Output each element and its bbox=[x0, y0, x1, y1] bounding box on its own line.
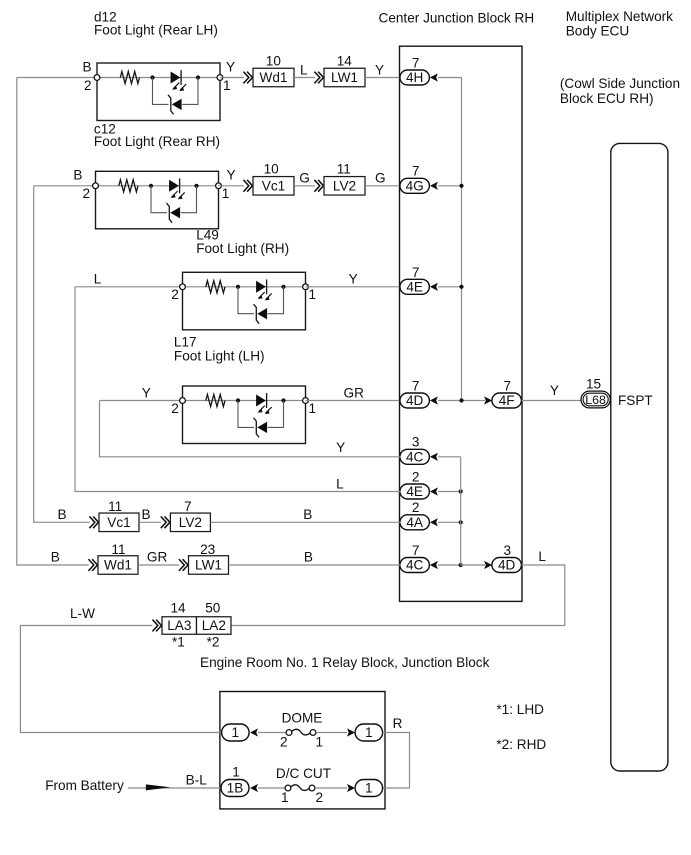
svg-text:Engine Room No. 1 Relay Block,: Engine Room No. 1 Relay Block, Junction … bbox=[200, 655, 490, 670]
wire D/C CUT fuse to right connector bbox=[315, 787, 347, 789]
svg-text:1: 1 bbox=[232, 764, 240, 779]
svg-text:LV2: LV2 bbox=[333, 178, 356, 193]
arrow into 4A bbox=[430, 518, 438, 526]
connector Wd1 row8 bbox=[98, 556, 138, 575]
fuse DOME bbox=[286, 729, 316, 735]
svg-text:B: B bbox=[303, 507, 312, 522]
svg-text:1: 1 bbox=[309, 401, 317, 416]
svg-text:B: B bbox=[83, 59, 92, 74]
Center Junction Block RH outline bbox=[400, 46, 523, 601]
wire DOME fuse to right connector bbox=[316, 732, 347, 734]
svg-text:R: R bbox=[393, 716, 403, 731]
svg-text:Y: Y bbox=[550, 383, 559, 398]
wire L-W down to DOME connector bbox=[20, 626, 221, 733]
svg-text:4F: 4F bbox=[499, 393, 515, 408]
connector 4E row3 bbox=[400, 279, 430, 294]
svg-text:1: 1 bbox=[365, 781, 373, 796]
junction block internal bus upper bbox=[461, 78, 463, 401]
chevron into LV2 bbox=[314, 180, 323, 192]
lower bus dot 4C bbox=[459, 563, 463, 567]
L49 internal wire bbox=[183, 286, 306, 288]
wire B LW1 to 4C bbox=[229, 564, 401, 566]
svg-text:Y: Y bbox=[226, 59, 235, 74]
arrow into 4D bbox=[430, 396, 438, 404]
svg-text:15: 15 bbox=[586, 377, 601, 392]
arrow into 4C bbox=[430, 453, 438, 461]
svg-text:GR: GR bbox=[147, 550, 168, 565]
wire L from L49 loop to 4E bbox=[75, 287, 401, 492]
connector 4D row8 right bbox=[492, 558, 522, 573]
svg-text:7: 7 bbox=[184, 499, 192, 514]
arrow into 4F bbox=[484, 396, 492, 404]
wire 4A to lower bus bbox=[438, 521, 461, 523]
arrow into 4H bbox=[430, 73, 438, 81]
chevron into Vc1 lower bbox=[89, 516, 98, 528]
d12 LED bbox=[171, 70, 187, 91]
connector LW1 row8 bbox=[189, 556, 229, 575]
svg-text:Foot Light (LH): Foot Light (LH) bbox=[174, 348, 265, 363]
c12 pin 2 terminal bbox=[93, 183, 99, 189]
d12 body bbox=[97, 63, 220, 121]
chevron into LW1 bbox=[314, 72, 323, 84]
svg-text:7: 7 bbox=[412, 379, 420, 394]
Engine Room No. 1 Relay Block outline bbox=[220, 692, 385, 809]
svg-text:GR: GR bbox=[344, 385, 365, 400]
Multiplex Network Body ECU outline bbox=[611, 143, 668, 771]
wire 4C to lower bus bbox=[438, 456, 461, 458]
wire to D/C CUT fuse bbox=[258, 787, 285, 789]
L49 pin 1 terminal bbox=[303, 284, 309, 290]
L49 resistor bbox=[206, 281, 225, 293]
wire Y c12 to Vc1 bbox=[219, 185, 245, 187]
svg-text:1: 1 bbox=[365, 725, 373, 740]
svg-text:1: 1 bbox=[232, 725, 240, 740]
svg-text:G: G bbox=[375, 171, 386, 186]
connector 4E row6 bbox=[400, 484, 430, 499]
svg-text:2: 2 bbox=[171, 401, 179, 416]
svg-text:7: 7 bbox=[412, 543, 420, 558]
d12 pin 1 terminal bbox=[217, 75, 223, 81]
svg-text:4E: 4E bbox=[406, 484, 423, 499]
svg-text:*1: LHD: *1: LHD bbox=[496, 702, 544, 717]
connector 4H bbox=[400, 70, 430, 85]
svg-text:4H: 4H bbox=[406, 70, 423, 85]
L49 body bbox=[183, 272, 306, 330]
DOME connector left bbox=[222, 724, 250, 741]
svg-text:4D: 4D bbox=[406, 393, 424, 408]
svg-text:Y: Y bbox=[227, 168, 236, 183]
svg-text:4C: 4C bbox=[406, 558, 424, 573]
svg-text:*2: RHD: *2: RHD bbox=[496, 737, 546, 752]
connector 4A bbox=[400, 515, 430, 530]
left bus wire B row c12 to Vc1 bbox=[34, 186, 90, 523]
svg-text:LW1: LW1 bbox=[331, 70, 358, 85]
wire 4G to internal bus bbox=[438, 185, 462, 187]
wire Y LW1 to 4H bbox=[365, 77, 401, 79]
svg-text:Block ECU RH): Block ECU RH) bbox=[560, 91, 654, 106]
svg-text:Vc1: Vc1 bbox=[262, 178, 285, 193]
bus junction dot 4E bbox=[459, 285, 463, 289]
c12 pin 1 terminal bbox=[216, 183, 222, 189]
wire 4C to lower bus bbox=[438, 564, 461, 566]
wire 4D to internal bus bbox=[438, 400, 462, 402]
svg-text:L68: L68 bbox=[585, 393, 606, 407]
svg-text:1: 1 bbox=[223, 78, 231, 93]
svg-text:*2: *2 bbox=[207, 635, 220, 650]
svg-text:LV2: LV2 bbox=[179, 515, 202, 530]
svg-text:4A: 4A bbox=[406, 515, 424, 530]
d12 junction dot right bbox=[196, 75, 200, 79]
svg-text:3: 3 bbox=[412, 434, 420, 449]
svg-text:L: L bbox=[538, 549, 546, 564]
svg-text:7: 7 bbox=[504, 379, 512, 394]
svg-text:Center Junction Block RH: Center Junction Block RH bbox=[379, 10, 535, 25]
svg-text:11: 11 bbox=[337, 162, 351, 177]
connector Wd1 row1 bbox=[253, 68, 294, 87]
bus junction dot 4D bbox=[459, 398, 463, 402]
connector 1B bbox=[221, 780, 249, 797]
svg-text:LA3: LA3 bbox=[167, 618, 191, 633]
svg-text:Wd1: Wd1 bbox=[104, 558, 132, 573]
L49 lower branch wire bbox=[238, 287, 284, 314]
connector 4C row8 bbox=[400, 558, 430, 573]
wire lower bus to 4D bbox=[461, 564, 485, 566]
svg-text:10: 10 bbox=[264, 162, 280, 177]
wire L from loop to L49 pin 2 bbox=[75, 286, 183, 288]
svg-text:B: B bbox=[51, 550, 60, 565]
svg-text:Y: Y bbox=[142, 385, 151, 400]
chevron into Wd1 lower bbox=[88, 559, 97, 571]
svg-text:2: 2 bbox=[280, 734, 288, 749]
d12 pin 2 terminal bbox=[94, 75, 100, 81]
L17 junction dot right bbox=[281, 398, 285, 402]
chevron into LA3 bbox=[152, 620, 161, 632]
svg-text:2: 2 bbox=[83, 186, 91, 201]
svg-text:3: 3 bbox=[504, 543, 512, 558]
D/C CUT connector right bbox=[355, 780, 383, 797]
svg-text:D/C CUT: D/C CUT bbox=[276, 766, 331, 781]
d12 protection diode bbox=[168, 95, 182, 115]
wire GR Wd1 to LW1 bbox=[138, 564, 179, 566]
svg-text:From Battery: From Battery bbox=[45, 778, 124, 793]
svg-text:Body ECU: Body ECU bbox=[566, 23, 629, 38]
wire Y L49 to 4E bbox=[306, 286, 401, 288]
svg-text:14: 14 bbox=[337, 53, 353, 68]
d12 lower branch wire bbox=[153, 78, 199, 105]
wire from battery bbox=[128, 787, 222, 789]
connector 4F bbox=[492, 393, 522, 408]
L17 internal wire bbox=[183, 400, 306, 402]
wire B Vc1 to LV2 bbox=[139, 521, 161, 523]
chevron into Vc1 bbox=[243, 180, 252, 192]
c12 lower branch wire bbox=[151, 186, 197, 213]
svg-text:2: 2 bbox=[412, 500, 420, 515]
svg-text:LW1: LW1 bbox=[195, 558, 222, 573]
arrow into 4E bbox=[430, 487, 438, 495]
svg-text:1: 1 bbox=[222, 186, 230, 201]
connector Vc1 row7 bbox=[99, 513, 139, 532]
connector LV2 row7 bbox=[170, 513, 210, 532]
left bus wire B row d12 to Wd1 bbox=[17, 78, 89, 566]
svg-text:1: 1 bbox=[309, 287, 317, 302]
svg-text:2: 2 bbox=[171, 287, 179, 302]
connector LA2 bbox=[197, 617, 232, 635]
svg-text:7: 7 bbox=[412, 55, 420, 70]
L17 pin 1 terminal bbox=[303, 398, 309, 404]
wire 4H to internal bus bbox=[438, 77, 462, 79]
svg-text:Y: Y bbox=[349, 272, 358, 287]
svg-text:*1: *1 bbox=[172, 635, 185, 650]
d12 junction dot left bbox=[150, 75, 154, 79]
L49 protection diode bbox=[254, 304, 268, 324]
arrow into DOME left connector bbox=[250, 728, 258, 736]
arrow into 1B bbox=[250, 784, 258, 792]
svg-text:FSPT: FSPT bbox=[618, 393, 653, 408]
svg-text:B: B bbox=[58, 507, 67, 522]
wire to DOME fuse bbox=[258, 732, 286, 734]
svg-text:11: 11 bbox=[108, 499, 122, 514]
svg-text:4D: 4D bbox=[498, 558, 516, 573]
connector LW1 row1 bbox=[324, 68, 365, 87]
c12 resistor bbox=[119, 180, 138, 192]
svg-text:Y: Y bbox=[375, 62, 384, 77]
wire 4E to internal bus bbox=[438, 286, 462, 288]
svg-text:DOME: DOME bbox=[282, 711, 323, 726]
arrow into D/C CUT right connector bbox=[347, 784, 355, 792]
chevron into LW1 lower bbox=[179, 559, 188, 571]
svg-text:4C: 4C bbox=[406, 449, 424, 464]
L17 LED bbox=[256, 393, 272, 414]
DOME connector right bbox=[355, 724, 383, 741]
arrow into 4D right bbox=[484, 561, 492, 569]
svg-text:L: L bbox=[94, 272, 102, 287]
c12 internal wire bbox=[96, 185, 219, 187]
wire G LV2 to 4G bbox=[365, 185, 401, 187]
L17 junction dot left bbox=[236, 398, 240, 402]
arrow into 4G bbox=[430, 182, 438, 190]
svg-text:B-L: B-L bbox=[186, 772, 208, 787]
L49 junction dot right bbox=[281, 285, 285, 289]
wire Y from loop to L17 pin 2 bbox=[100, 400, 183, 402]
svg-text:7: 7 bbox=[412, 164, 420, 179]
wire Y d12 to Wd1 bbox=[220, 77, 244, 79]
svg-text:2: 2 bbox=[84, 78, 92, 93]
L49 junction dot left bbox=[236, 285, 240, 289]
svg-text:1: 1 bbox=[316, 734, 324, 749]
fuse D/C CUT bbox=[285, 785, 315, 791]
chevron into Wd1 bbox=[243, 72, 252, 84]
lower bus dot 4E bbox=[459, 489, 463, 493]
arrow into DOME right connector bbox=[347, 728, 355, 736]
svg-text:B: B bbox=[73, 168, 82, 183]
svg-text:4E: 4E bbox=[406, 279, 423, 294]
svg-text:Y: Y bbox=[336, 440, 345, 455]
wire L-W to LA3 bbox=[20, 625, 152, 627]
wire bus to 4F bbox=[462, 400, 486, 402]
d12 internal wire bbox=[97, 77, 220, 79]
d12 resistor bbox=[120, 71, 139, 83]
c12 LED bbox=[169, 178, 185, 199]
connector LV2 row2 bbox=[324, 177, 365, 196]
svg-text:B: B bbox=[304, 550, 313, 565]
svg-text:4G: 4G bbox=[406, 178, 424, 193]
connector 4C row5 bbox=[400, 449, 430, 464]
junction block internal bus lower bbox=[460, 457, 462, 565]
svg-text:11: 11 bbox=[111, 542, 125, 557]
svg-text:10: 10 bbox=[266, 53, 282, 68]
svg-text:2: 2 bbox=[316, 790, 324, 805]
svg-text:50: 50 bbox=[205, 601, 221, 616]
bus junction dot 4G bbox=[459, 184, 463, 188]
connector L68 bbox=[581, 391, 610, 408]
svg-text:Foot Light (Rear RH): Foot Light (Rear RH) bbox=[94, 134, 220, 149]
lower bus dot 4A bbox=[459, 520, 463, 524]
connector 4G bbox=[400, 178, 430, 193]
c12 protection diode bbox=[167, 203, 181, 223]
wire B from left bus to d12 pin 2 bbox=[17, 77, 97, 79]
chevron into LV2 lower bbox=[161, 516, 170, 528]
wire L Wd1 to LW1 bbox=[294, 77, 315, 79]
c12 junction dot left bbox=[149, 184, 153, 188]
svg-text:L-W: L-W bbox=[70, 606, 95, 621]
svg-text:L: L bbox=[336, 476, 344, 491]
arrow into 4E bbox=[430, 283, 438, 291]
c12 body bbox=[96, 171, 219, 229]
L17 lower branch wire bbox=[238, 401, 284, 428]
svg-text:2: 2 bbox=[412, 469, 420, 484]
L49 LED bbox=[256, 279, 272, 300]
svg-text:(Cowl Side Junction: (Cowl Side Junction bbox=[560, 76, 680, 91]
svg-text:B: B bbox=[142, 507, 151, 522]
L17 resistor bbox=[206, 394, 225, 406]
wire 4E to lower bus bbox=[438, 491, 461, 493]
svg-text:L: L bbox=[300, 62, 308, 77]
svg-text:1B: 1B bbox=[227, 781, 244, 796]
wire B LV2 to 4A bbox=[210, 521, 400, 523]
L17 body bbox=[183, 386, 306, 444]
wire B from left bus to c12 pin 2 bbox=[34, 185, 96, 187]
wire L from 4D down to LA2 bbox=[231, 565, 565, 626]
svg-text:7: 7 bbox=[412, 265, 420, 280]
connector LA3 bbox=[162, 617, 197, 635]
wire G Vc1 to LV2 bbox=[294, 185, 315, 187]
L17 pin 2 terminal bbox=[180, 398, 186, 404]
wire Y from L17 loop to 4C bbox=[100, 401, 401, 457]
c12 junction dot right bbox=[194, 184, 198, 188]
svg-text:Foot Light (Rear LH): Foot Light (Rear LH) bbox=[94, 22, 218, 37]
svg-text:G: G bbox=[299, 171, 310, 186]
wire R loop DOME to D/C CUT bbox=[383, 733, 410, 789]
connector 4D row4 bbox=[400, 393, 430, 408]
svg-text:1: 1 bbox=[281, 790, 289, 805]
svg-text:Vc1: Vc1 bbox=[107, 515, 130, 530]
wire Y 4F to L68 bbox=[522, 400, 582, 402]
arrow into 4C bbox=[430, 561, 438, 569]
battery flow arrow bbox=[146, 784, 170, 790]
svg-text:Foot Light (RH): Foot Light (RH) bbox=[196, 241, 289, 256]
connector Vc1 row2 bbox=[253, 177, 294, 196]
svg-text:14: 14 bbox=[171, 601, 187, 616]
svg-text:Wd1: Wd1 bbox=[260, 70, 288, 85]
L49 pin 2 terminal bbox=[180, 284, 186, 290]
L17 protection diode bbox=[254, 418, 268, 438]
svg-text:23: 23 bbox=[200, 542, 215, 557]
svg-text:Multiplex Network: Multiplex Network bbox=[566, 9, 673, 24]
wire GR L17 to 4D bbox=[306, 400, 401, 402]
svg-text:LA2: LA2 bbox=[202, 618, 226, 633]
